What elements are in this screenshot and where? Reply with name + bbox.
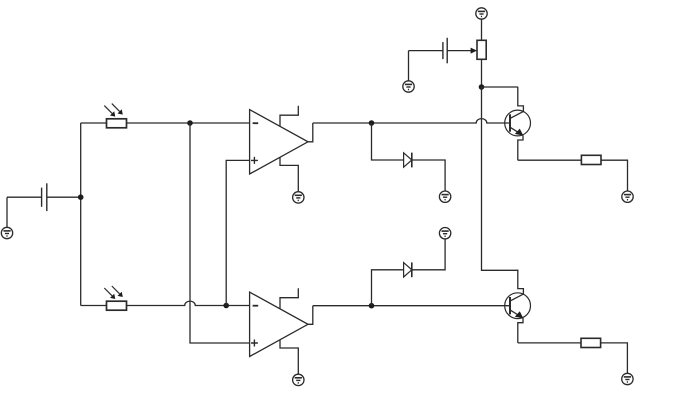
op-amp U1 V- pin [280, 157, 298, 191]
wire: left vertical rail joining top and bottom LDR branches [80, 123, 82, 306]
wire: LDR1 node down to U2 non-inverting input [190, 123, 250, 343]
op-amp U2 V+ pin [280, 288, 298, 309]
wire: Q2 emitter to R2 and ground [518, 343, 628, 373]
potentiometer VR1 [477, 40, 486, 59]
ground GND2 (U1 negative supply) [293, 192, 304, 203]
ground GND4 (U2 negative supply) [293, 374, 304, 385]
wire: bottom rail node B (LDR2 to U2 inverting input, hop over vertical) [81, 301, 250, 305]
ground GND5 (D2 cathode) [439, 228, 450, 239]
node junction: LDR2 output [223, 303, 229, 309]
ground GND1 (left battery) [1, 227, 12, 238]
ground GND6 (top of potentiometer) [476, 8, 487, 19]
wire: U1 output elbow [308, 123, 313, 142]
node junction: U2 output / D2 [369, 303, 375, 309]
node junction: supply rail split [479, 84, 485, 90]
photoresistor LDR2 [104, 286, 126, 310]
battery B2 [443, 38, 447, 64]
wire: U2 output elbow [308, 306, 313, 325]
wire: U1 output to Q1 base (hop over supply rail) [313, 119, 510, 123]
resistor R2 [581, 338, 601, 347]
wire: LDR2 node up to U1 non-inverting input [226, 160, 249, 305]
op-amp U1 [250, 110, 308, 174]
wire: node A top rail (left battery + to LDR1 and U1 inverting input) [81, 122, 250, 124]
transistor Q1 [505, 87, 531, 160]
wire: supply node to Q1 collector [482, 86, 518, 88]
op-amp U2 V- pin [280, 340, 298, 374]
wiper arrowhead into VR1 [471, 48, 477, 54]
wire: supply rail down to Q2 collector [482, 87, 518, 270]
ground GND8 (R1) [622, 191, 633, 202]
wire: potentiometer bottom to supply node [481, 59, 483, 87]
diode D1 branch wire [372, 123, 446, 191]
ground GND9 (R2) [622, 373, 633, 384]
battery B1 wire segments [7, 197, 81, 227]
ground GND7 (battery B2 negative) [403, 81, 414, 92]
node junction: U1 output / D1 [369, 120, 375, 126]
op-amp U2 [250, 292, 308, 356]
photoresistor LDR1 [104, 104, 126, 128]
transistor Q2 [505, 270, 531, 343]
diode D2 branch wire [372, 239, 446, 306]
node junction: LDR1 output [187, 120, 193, 126]
wire: U2 output to Q2 base [313, 305, 510, 307]
wire: ground to potentiometer top [481, 19, 483, 40]
node junction: battery B1 + to rail [78, 194, 84, 200]
battery B2 wire segments [409, 51, 473, 81]
wire: Q1 emitter to R1 and ground [518, 160, 628, 191]
diode D1 [404, 153, 412, 168]
resistor R1 [581, 155, 601, 164]
diode D2 [404, 262, 412, 277]
ground GND3 (D1 cathode) [439, 191, 450, 202]
op-amp U1 V+ pin [280, 106, 298, 127]
battery B1 [42, 183, 47, 211]
